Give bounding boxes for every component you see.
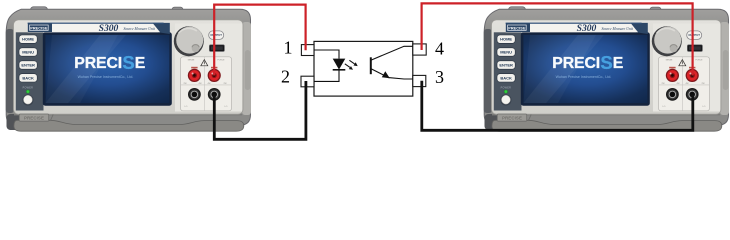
pin 2 (cathode) [301,76,314,87]
phototransistor emitter lead to pin 3 [371,69,413,79]
phototransistor collector lead to pin 4 [371,46,413,60]
light arrow 1 [349,60,354,64]
instrument PSU1 (left S300 source measure unit) [6,7,251,131]
wire black: PSU2 FORCE LO to pin 3 [422,81,693,131]
phototransistor Q1 base bar [370,57,372,74]
svg-text:3: 3 [435,67,444,87]
wire red: PSU2 FORCE HI to pin 4 [422,3,693,75]
pin 1 (anode) [301,45,314,56]
wire black: PSU1 FORCE LO to pin 2 [214,81,306,139]
pin 4 (collector) [413,44,426,55]
emitter arrow [382,71,390,78]
svg-text:4: 4 [435,39,444,59]
svg-text:1: 1 [284,38,293,58]
internal lead pin2 to LED cathode [314,70,339,82]
svg-text:2: 2 [281,67,290,87]
instrument PSU2 (right S300 source measure unit) [484,7,729,131]
optocoupler U1 body [314,41,413,96]
pin 3 (emitter) [413,75,426,86]
wire red: PSU1 FORCE HI to pin 1 [214,5,305,76]
light arrow 2 [345,64,350,68]
LED D1 (emitter diode) [333,59,346,70]
internal lead pin1 to LED anode [314,50,339,59]
